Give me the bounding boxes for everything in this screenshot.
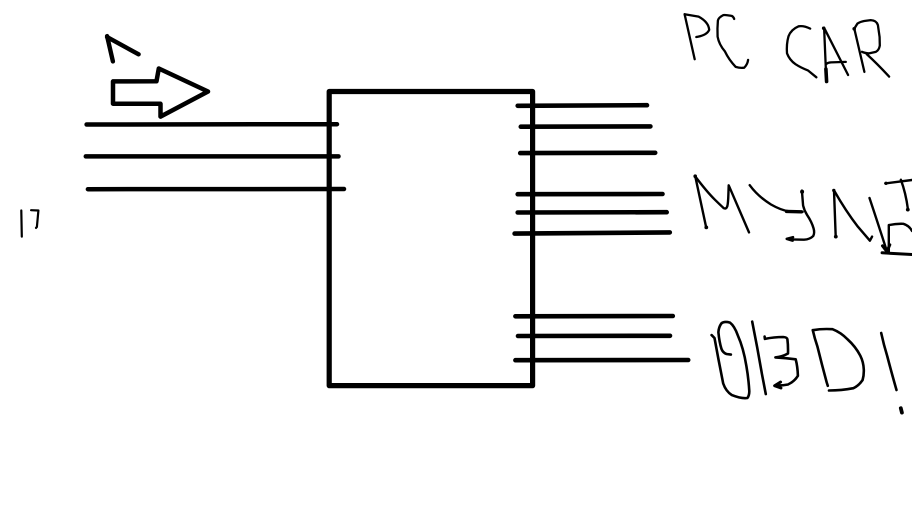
wire output 2 (PC CAR pin 2) — [521, 124, 651, 129]
node label 17 — [21, 210, 38, 236]
label PC CAR — [685, 14, 890, 82]
A — [824, 28, 826, 82]
P — [685, 14, 710, 37]
U (Cyrillic У) — [750, 185, 803, 212]
wire output 8 (OBD pin 2) — [518, 333, 670, 338]
block U1 (main module box) — [329, 92, 532, 386]
wire output 4 (MULT pin 1) — [518, 192, 663, 197]
direction arrow (flow symbol) — [113, 69, 208, 117]
wire input 3 — [88, 187, 344, 192]
wire output 7 (OBD pin 1) — [515, 314, 672, 319]
wire input 1 — [87, 122, 337, 127]
check mark above arrow — [107, 36, 113, 61]
wire input 2 — [86, 154, 339, 159]
D — [813, 329, 864, 391]
T — [885, 180, 912, 183]
label OBD! — [712, 322, 902, 413]
wire output 1 (PC CAR pin 1) — [518, 103, 647, 108]
L (Cyrillic Л) — [834, 190, 836, 236]
C — [787, 26, 817, 77]
wire output 3 (PC CAR pin 3) — [520, 151, 655, 156]
wire output 9 (OBD pin 3) — [515, 358, 688, 363]
B (Cyrillic В) — [752, 322, 766, 395]
wire output 5 (MULT pin 2) — [518, 210, 667, 215]
R — [854, 29, 864, 72]
wire output 6 (MULT pin 3) — [515, 232, 670, 233]
exclamation mark — [881, 333, 896, 390]
D (Cyrillic Д) body — [889, 224, 912, 253]
C — [717, 15, 748, 68]
label MULT (Cyrillic) — [693, 174, 912, 254]
O — [712, 322, 750, 398]
M — [695, 177, 706, 228]
D (Cyrillic Д) left diagonal with arrowhead — [870, 198, 887, 251]
